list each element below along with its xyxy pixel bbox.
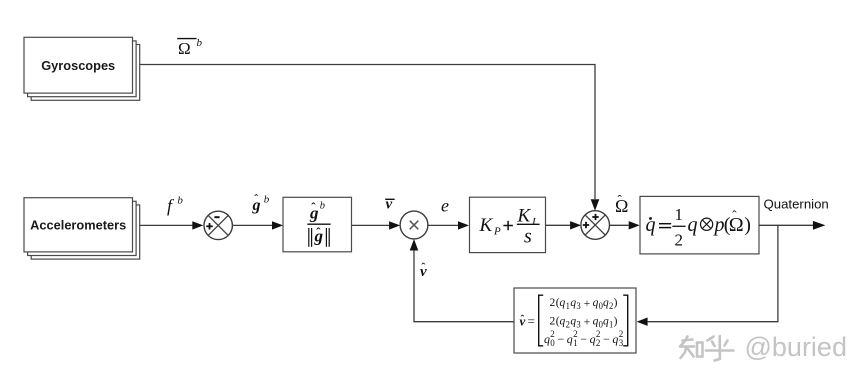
svg-text:q: q [567, 332, 573, 346]
wire normalize to multiplier [352, 224, 390, 226]
arrowhead into summer 2 [570, 221, 581, 229]
label Omega-hat [615, 192, 628, 216]
svg-text:+: + [584, 297, 591, 310]
svg-text:ˆ: ˆ [254, 191, 258, 205]
formula qdot = 1/2 q (x) p(Omega-hat) [646, 205, 751, 250]
right bracket [623, 295, 628, 346]
svg-text:2: 2 [619, 329, 624, 339]
svg-text:q: q [590, 332, 596, 346]
arrowhead output [813, 221, 826, 230]
label v-bar [385, 197, 394, 213]
svg-text:q: q [593, 314, 599, 327]
formula Kp + Ki/s [479, 205, 540, 247]
svg-text:q: q [544, 332, 550, 346]
svg-text:q: q [603, 296, 609, 309]
svg-text:=: = [528, 313, 535, 328]
svg-text:2: 2 [550, 329, 555, 339]
svg-text:s: s [524, 226, 532, 248]
svg-text:ˆ: ˆ [618, 192, 623, 207]
svg-text:b: b [197, 37, 203, 49]
svg-text:−: − [603, 332, 610, 346]
svg-text:P: P [493, 225, 501, 237]
svg-text:q: q [603, 314, 609, 327]
svg-text:K: K [479, 215, 494, 236]
wire gyro output Omega_b : right then down to summer 2 [140, 65, 595, 200]
block vhat computation [514, 288, 636, 353]
svg-text:−: − [558, 332, 565, 346]
arrowhead into vhat block (pointing left) [637, 318, 648, 326]
svg-text:p: p [713, 214, 725, 236]
svg-text:b: b [177, 195, 183, 207]
wire summer 2 to quaternion block [610, 224, 629, 226]
svg-text:q: q [688, 214, 698, 236]
svg-text:Gyroscopes: Gyroscopes [41, 58, 115, 73]
block normalize g [283, 197, 352, 252]
wire multiplier to PI block [428, 224, 458, 226]
svg-text:3: 3 [576, 301, 581, 311]
svg-text:): ) [744, 214, 751, 236]
arrowhead into summer 1 [192, 221, 203, 229]
svg-text:q: q [612, 332, 618, 346]
label g-hat^b [252, 191, 270, 214]
watermark glyph hu [706, 336, 734, 361]
svg-text:−: − [580, 332, 587, 346]
svg-text:1: 1 [566, 301, 570, 311]
wire quaternion output [759, 224, 813, 226]
row 3 : q0^2 - q1^2 - q2^2 - q3^2 [544, 329, 624, 348]
arrowhead into normalize block [272, 221, 283, 229]
svg-text:ˆ: ˆ [311, 200, 316, 215]
label vhat [420, 260, 427, 280]
left bracket [539, 295, 544, 346]
row 1 : 2(q1q3 + q0q2) [550, 296, 618, 311]
svg-text:ˆ: ˆ [421, 260, 425, 274]
sign + (left) [206, 225, 212, 227]
svg-text:2: 2 [573, 329, 578, 339]
svg-text:K: K [517, 205, 532, 226]
sign - (top) [214, 216, 219, 218]
svg-text:Quaternion: Quaternion [764, 197, 829, 212]
svg-text:): ) [614, 296, 618, 309]
block Gyroscopes (stacked) [24, 37, 140, 100]
svg-text:1: 1 [573, 338, 578, 348]
label Omega-bar^b [177, 37, 202, 58]
svg-text:e: e [441, 196, 449, 216]
wire vhat block to multiplier (left then up) [414, 250, 514, 321]
svg-text:q: q [570, 314, 576, 327]
row 2 : 2(q2q3 + q0q1) [550, 314, 618, 329]
arrowhead into quaternion block [629, 221, 640, 229]
svg-text:q: q [570, 296, 576, 309]
svg-text:+: + [584, 315, 591, 328]
arrowhead into PI block [458, 221, 469, 229]
svg-text:3: 3 [576, 319, 581, 329]
svg-text:2: 2 [566, 319, 570, 329]
block Accelerometers (stacked) [24, 198, 140, 259]
svg-text:q: q [560, 296, 566, 309]
sign + (left) [583, 224, 589, 226]
svg-text:0: 0 [550, 338, 555, 348]
svg-text:@buried: @buried [745, 332, 847, 362]
arrowhead into multiplier [389, 221, 400, 229]
svg-text:ˆ: ˆ [316, 225, 321, 240]
svg-text:ˆ: ˆ [732, 207, 737, 222]
svg-text:2: 2 [550, 314, 556, 327]
svg-text:q: q [593, 296, 599, 309]
svg-text:2: 2 [596, 329, 601, 339]
svg-text:): ) [614, 314, 618, 327]
summer S1 (accel error) [204, 211, 232, 239]
svg-text:1: 1 [675, 205, 684, 224]
label f^b [167, 195, 183, 216]
svg-text:2: 2 [675, 231, 684, 250]
block quaternion propagation [640, 196, 759, 254]
formula ghat^b over norm [307, 200, 330, 247]
wire S1 to normalize block [232, 224, 272, 226]
otimes symbol [701, 218, 713, 230]
block PI controller [470, 197, 546, 252]
arrowhead down into summer 2 [591, 199, 600, 211]
svg-text:ˆ: ˆ [521, 314, 525, 326]
svg-text:3: 3 [619, 338, 624, 348]
multiplier junction (cross product) [400, 211, 428, 239]
svg-text:2: 2 [596, 338, 601, 348]
wire accel output f [140, 224, 193, 226]
summer S2 (gyro + correction) [581, 211, 610, 240]
svg-text:2: 2 [550, 296, 556, 309]
wire feedback branch down and left [648, 225, 778, 321]
wire PI to summer 2 [546, 224, 571, 226]
svg-text:b: b [264, 194, 270, 206]
svg-text:Accelerometers: Accelerometers [30, 218, 126, 233]
svg-text:q: q [560, 314, 566, 327]
watermark glyph zhi [680, 337, 703, 359]
sign + (top) [592, 216, 598, 218]
arrowhead up into multiplier [410, 239, 419, 250]
watermark zhihu @buried [680, 336, 734, 361]
svg-text:Ω: Ω [178, 39, 191, 58]
svg-text:b: b [320, 200, 325, 211]
